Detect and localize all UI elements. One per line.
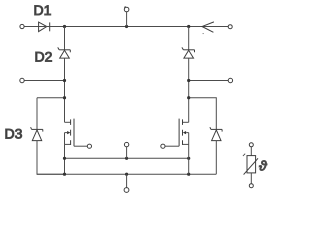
wire left vertical (D2 to Q1 drain) — [64, 58, 66, 122]
junction left vertical / terminal wire — [63, 79, 66, 82]
terminal left-top input circle — [20, 24, 24, 28]
zener diode D3 — [31, 127, 43, 140]
zener diode right lower — [210, 127, 222, 140]
wire D3 branch horizontal — [37, 97, 65, 99]
wire right lower zener to rail B — [215, 141, 217, 175]
wire top rail to right zener — [188, 27, 190, 50]
wire left terminal to vertical — [24, 80, 64, 82]
wire rail A (sources) — [65, 157, 189, 159]
svg-text:ϑ: ϑ — [259, 157, 268, 173]
MOSFET Q2 (right) — [179, 119, 189, 147]
wire D3 bottom to rail B — [37, 141, 65, 175]
junction rail B right — [187, 173, 190, 176]
terminal thermistor bottom circle — [249, 184, 253, 188]
arrow on top rail (pointing left) — [202, 22, 214, 34]
terminal center output circle — [124, 142, 128, 146]
wire rail B (bottom) — [37, 173, 216, 175]
label D1 — [34, 2, 52, 18]
terminal top-right circle — [228, 25, 232, 29]
terminal Q1 gate circle — [87, 144, 91, 148]
wire right vertical (zener to Q2 drain) — [188, 58, 190, 122]
junction left vertical / D3 branch — [63, 96, 66, 99]
junction top rail / left branch — [63, 25, 66, 28]
wire D1 anode — [24, 26, 38, 28]
wire top-center terminal to rail — [126, 12, 128, 27]
junction right vertical / branch — [187, 96, 190, 99]
MOSFET Q1 (left) — [65, 119, 75, 147]
svg-text:D1: D1 — [34, 2, 52, 18]
wire thermistor bottom — [250, 173, 252, 184]
junction top rail / center terminal — [125, 25, 128, 28]
wire top rail to D2 — [64, 27, 66, 50]
wire top rail — [50, 26, 229, 28]
junction rail A right — [187, 157, 190, 160]
wire right terminal — [189, 80, 229, 82]
terminal top-center circle — [124, 6, 129, 11]
wire D3 top — [36, 98, 38, 130]
wire Q2 source down — [188, 144, 190, 174]
junction rail B center — [125, 173, 128, 176]
label D3 — [5, 126, 23, 142]
wire Q1 gate — [74, 145, 87, 147]
junction top rail / right branch — [187, 25, 190, 28]
junction rail A left — [63, 157, 66, 160]
zener diode right upper — [182, 47, 195, 58]
terminal Q2 gate circle — [161, 144, 165, 148]
terminal left input circle — [20, 78, 24, 82]
terminal bottom-center circle — [124, 188, 129, 193]
terminal right circle — [228, 78, 232, 82]
terminal thermistor top circle — [249, 143, 253, 147]
junction rail B left — [63, 173, 66, 176]
wire Q2 gate — [165, 145, 179, 147]
wire thermistor top — [250, 147, 252, 156]
label D2 — [35, 48, 53, 64]
wire Q1 source down — [64, 144, 66, 174]
svg-text:D3: D3 — [5, 126, 23, 142]
wire center terminal to rail A — [126, 147, 128, 158]
zener diode D2 — [58, 47, 71, 58]
label theta — [259, 157, 268, 173]
svg-text:D2: D2 — [35, 48, 53, 64]
thermistor (temperature sensor) — [243, 154, 258, 175]
diode D1 — [39, 22, 50, 32]
junction rail A center — [125, 157, 128, 160]
junction right vertical / terminal wire — [187, 79, 190, 82]
wire bottom terminal riser — [126, 174, 128, 188]
wire right lower-zener branch — [189, 98, 217, 130]
